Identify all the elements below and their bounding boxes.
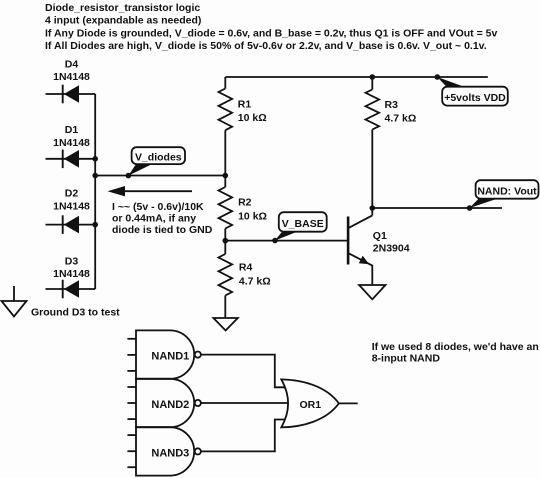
svg-text:Ground D3 to test: Ground D3 to test: [31, 307, 120, 319]
svg-text:D4: D4: [65, 59, 79, 71]
svg-text:1N4148: 1N4148: [53, 201, 90, 213]
svg-text:8-input NAND: 8-input NAND: [372, 353, 441, 365]
svg-text:or 0.44mA, if any: or 0.44mA, if any: [112, 213, 196, 225]
svg-text:I ~~ (5v - 0.6v)/10K: I ~~ (5v - 0.6v)/10K: [112, 201, 204, 213]
svg-text:10 kΩ: 10 kΩ: [238, 211, 267, 223]
svg-text:V_BASE: V_BASE: [282, 218, 324, 230]
svg-text:V_diodes: V_diodes: [135, 152, 182, 164]
svg-text:2N3904: 2N3904: [373, 243, 410, 255]
svg-text:Q1: Q1: [373, 230, 387, 242]
svg-text:D3: D3: [65, 256, 79, 268]
svg-text:If Any Diode is grounded, V_di: If Any Diode is grounded, V_diode = 0.6v…: [45, 28, 497, 40]
svg-text:OR1: OR1: [300, 399, 322, 411]
svg-text:NAND: Vout: NAND: Vout: [477, 185, 537, 197]
svg-text:1N4148: 1N4148: [53, 268, 90, 280]
svg-text:NAND2: NAND2: [151, 399, 189, 411]
svg-text:R4: R4: [239, 262, 253, 274]
svg-text:NAND1: NAND1: [151, 351, 189, 363]
svg-text:4 input (expandable as needed): 4 input (expandable as needed): [45, 15, 201, 27]
svg-text:NAND3: NAND3: [151, 447, 189, 459]
svg-text:Diode_resistor_transistor logi: Diode_resistor_transistor logic: [45, 2, 200, 14]
svg-text:R1: R1: [238, 99, 252, 111]
svg-text:R3: R3: [385, 99, 399, 111]
svg-text:D1: D1: [65, 124, 79, 136]
svg-text:4.7 kΩ: 4.7 kΩ: [385, 113, 417, 125]
svg-text:10 kΩ: 10 kΩ: [238, 112, 267, 124]
svg-text:If All Diodes are high, V_diod: If All Diodes are high, V_diode is 50% o…: [45, 40, 487, 52]
svg-text:If we used 8 diodes, we'd have: If we used 8 diodes, we'd have an: [372, 341, 539, 353]
svg-text:1N4148: 1N4148: [53, 137, 90, 149]
svg-text:4.7 kΩ: 4.7 kΩ: [239, 276, 271, 288]
svg-text:1N4148: 1N4148: [53, 71, 90, 83]
svg-text:diode is tied to GND: diode is tied to GND: [112, 224, 213, 236]
svg-text:+5volts VDD: +5volts VDD: [444, 92, 506, 104]
svg-text:R2: R2: [238, 197, 252, 209]
svg-text:D2: D2: [65, 188, 79, 200]
